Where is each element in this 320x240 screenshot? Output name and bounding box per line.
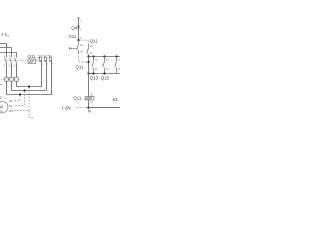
dashed motor lead U1 <box>14 95 20 100</box>
svg-text:Q11: Q11 <box>76 65 85 70</box>
svg-text:14: 14 <box>90 53 93 55</box>
dashed wire S11 to hold-in <box>80 40 89 44</box>
node rail1 b2 <box>103 55 105 57</box>
dashed motor lead V1 <box>14 91 25 105</box>
wire phase2 to right riser <box>12 61 47 90</box>
svg-text:N: N <box>88 109 91 114</box>
control supply terminal <box>78 17 80 19</box>
thermal element pole1 <box>5 77 8 81</box>
svg-text:3: 3 <box>9 56 11 58</box>
svg-text:Q11: Q11 <box>28 54 37 59</box>
wire N rail <box>89 107 121 109</box>
breaker pole 1 contact <box>5 58 7 64</box>
motor M1 <box>0 102 8 113</box>
wire pole3 drop <box>16 64 18 78</box>
svg-text:1: 1 <box>80 20 82 22</box>
node rail1 left <box>87 55 89 57</box>
svg-text:3: 3 <box>80 38 82 40</box>
dashed N left <box>76 107 87 109</box>
contact branch Q13 <box>92 57 94 74</box>
wire control drop <box>78 18 80 40</box>
svg-text:V1: V1 <box>9 104 13 108</box>
node S11 join <box>87 61 89 63</box>
svg-text:Q4: Q4 <box>71 26 77 31</box>
node rail2 b1 <box>92 72 94 74</box>
contact Q11 aux <box>87 44 89 56</box>
contactor Q11 operator box <box>28 59 36 64</box>
wire L3 bus <box>0 53 17 58</box>
svg-text:2: 2 <box>4 66 6 68</box>
wire pole2 drop <box>11 64 13 78</box>
svg-text:T1: T1 <box>4 97 7 100</box>
svg-text:13: 13 <box>106 59 109 61</box>
node tap1 <box>19 93 21 95</box>
node rail1 b1 <box>92 55 94 57</box>
svg-text:14: 14 <box>118 69 120 71</box>
svg-text:13: 13 <box>80 45 83 47</box>
svg-text:5: 5 <box>14 56 16 58</box>
left edge tick <box>0 84 2 86</box>
svg-text:2: 2 <box>42 64 43 66</box>
wire pole1 drop <box>6 64 8 78</box>
svg-text:U1: U1 <box>9 99 13 103</box>
svg-text:14: 14 <box>95 69 98 71</box>
wire coil to N <box>88 100 90 108</box>
breaker pole 2 contact <box>10 58 12 64</box>
svg-text:5: 5 <box>52 58 53 60</box>
svg-text:4: 4 <box>47 64 48 66</box>
node tap2 <box>23 89 25 91</box>
svg-text:3: 3 <box>47 58 48 60</box>
svg-text:Q13: Q13 <box>90 75 99 80</box>
node rail1 b3 <box>115 55 117 57</box>
rail 1 <box>89 56 121 58</box>
svg-text:2: 2 <box>0 96 2 100</box>
node control tap <box>77 39 79 41</box>
svg-text:A2: A2 <box>90 101 94 104</box>
thermal element pole3 <box>15 77 18 81</box>
svg-text:14: 14 <box>106 69 109 71</box>
svg-text:6: 6 <box>14 66 16 68</box>
button S11 contact <box>77 40 79 53</box>
wire L1 bus <box>0 44 7 58</box>
svg-text:3~: 3~ <box>0 109 4 113</box>
thermal element pole2 <box>10 77 13 81</box>
contact branch 3 <box>115 57 117 74</box>
svg-text:S11: S11 <box>69 34 77 39</box>
svg-text:(–)N: (–)N <box>62 105 71 110</box>
pin specks right group <box>42 58 53 66</box>
svg-text:13: 13 <box>95 59 98 61</box>
svg-text:6: 6 <box>52 64 53 66</box>
contactor Q11 main pole 2 <box>44 57 47 62</box>
svg-text:Q11: Q11 <box>90 39 99 44</box>
wire L2 bus <box>0 48 12 58</box>
pin numbers 1 3 5 <box>4 56 16 58</box>
svg-text:14: 14 <box>80 52 83 54</box>
dashed motor lead W1 <box>14 87 29 110</box>
rail 2 <box>89 73 121 75</box>
coil Q11 <box>85 97 94 100</box>
thermal linkage dashes <box>1 78 21 80</box>
node rail2 b2 <box>103 72 105 74</box>
wire phase3 to right riser <box>17 61 42 86</box>
fuse Q4 <box>78 25 80 28</box>
svg-text:13: 13 <box>118 59 120 61</box>
contact branch Q15 <box>103 57 105 74</box>
svg-text:Q15: Q15 <box>101 75 110 80</box>
svg-text:1: 1 <box>4 56 6 58</box>
dashed wire S11 lower <box>79 53 88 62</box>
svg-text:13: 13 <box>90 46 93 48</box>
trip linkage dashed <box>5 60 28 62</box>
pin numbers 2 4 6 <box>4 66 16 68</box>
svg-text:K1: K1 <box>113 97 119 102</box>
breaker pole 3 contact <box>15 58 17 64</box>
wire phase1 to right riser <box>7 61 52 94</box>
linkage box to contacts dashed <box>36 55 52 60</box>
wire hold branch down <box>88 57 90 97</box>
node N <box>87 107 89 109</box>
svg-text:× Le: × Le <box>1 32 10 38</box>
svg-text:4: 4 <box>9 66 11 68</box>
contactor Q11 main pole 1 <box>39 57 42 62</box>
contactor Q11 main pole 3 <box>49 57 52 62</box>
node tap3 <box>28 85 30 87</box>
svg-text:A1: A1 <box>90 94 94 97</box>
svg-text:2: 2 <box>80 30 82 32</box>
node rail2 left <box>87 72 89 74</box>
dashed PE tail <box>29 111 33 118</box>
button S11 actuator <box>69 47 76 50</box>
svg-text:1: 1 <box>42 58 43 60</box>
svg-text:Q11: Q11 <box>73 96 82 101</box>
svg-text:W1: W1 <box>9 109 14 113</box>
